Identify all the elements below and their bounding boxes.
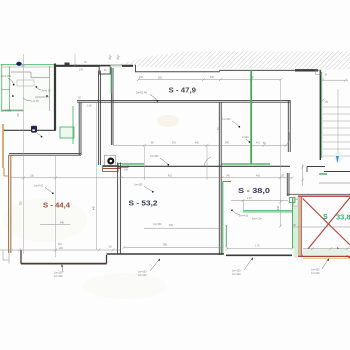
faint watermark blob c (83, 273, 167, 299)
shaft wall x112 (110, 68, 112, 145)
svg-text:1m=150: 1m=150 (54, 273, 63, 275)
panel leader (37, 133, 41, 136)
room below annex bottom wall (3, 129, 56, 131)
thick wall above stairs (295, 69, 318, 71)
faint watermark blob a (3, 198, 87, 242)
tick d (301, 166, 304, 169)
tan outer wall left (2, 124, 4, 168)
white box on strip (294, 200, 298, 207)
light green band (122, 163, 144, 165)
right wall dark (319, 70, 321, 160)
bottom outer wall left (20, 250, 22, 264)
dim line y178 (11, 177, 292, 179)
dim line y145 (113, 144, 288, 146)
bathtub symbol blue (16, 62, 21, 66)
svg-text:2.08: 2.08 (87, 106, 92, 108)
svg-text:1m=120: 1m=120 (311, 273, 320, 275)
extension line x23 (23, 54, 25, 254)
tick e (301, 179, 304, 182)
svg-text:L=1.50: L=1.50 (32, 101, 40, 103)
svg-text:2.00: 2.00 (247, 198, 252, 200)
red utility box (103, 166, 118, 172)
svg-text:1m=4.05: 1m=4.05 (239, 216, 249, 218)
top dim tick x74 (74, 64, 77, 67)
extension line x75 (74, 54, 76, 67)
wall step x136 (135, 65, 137, 72)
red room left gray line (297, 196, 299, 257)
dim line y228 (144, 227, 222, 229)
red room top dark line (287, 193, 350, 195)
top wall thin segment (135, 71, 220, 73)
green step segment (319, 173, 327, 175)
dim line across red room bottom (303, 248, 350, 250)
stair center line (337, 89, 339, 154)
red room left red wall (300, 197, 302, 256)
red diagonal 3 (337, 248, 350, 259)
divider wall S44/S53 (117, 163, 119, 255)
stair direction arrow blue (334, 152, 343, 163)
under-stair step wall b (306, 167, 308, 173)
green vertical x73 (72, 106, 74, 144)
annex partition v1 (30, 72, 32, 78)
extension line x55 (55, 155, 57, 257)
annex green border left (1, 64, 3, 112)
left brown wall pair (8, 155, 10, 253)
green line x251 (250, 70, 252, 164)
red room top red wall (298, 195, 350, 197)
extension line x280 (279, 80, 281, 227)
svg-text:5m=52.4%: 5m=52.4% (136, 93, 147, 95)
green tiny rect (118, 163, 128, 167)
svg-text:1m=120: 1m=120 (232, 274, 241, 276)
south rooms top wall (103, 165, 290, 167)
annex interior vertical (49, 66, 51, 111)
dim line y247 mid (124, 246, 222, 248)
dim line y200 S38 (231, 199, 288, 201)
annex green inner vertical (9, 66, 11, 112)
green box top (290, 198, 296, 203)
light green band right of recess (110, 65, 122, 67)
annex green bottom (2, 110, 24, 112)
tick right a (321, 79, 324, 82)
top thick wall (54, 65, 133, 67)
wall between annex and room x79 (78, 102, 80, 155)
tick mark box (316, 70, 322, 75)
red diagonal 2 (303, 199, 350, 246)
panel symbol (31, 126, 37, 133)
shaft wall x99 (98, 71, 100, 166)
svg-text:S: S (323, 212, 328, 221)
door arc S53 (204, 157, 211, 166)
svg-text:1m=150: 1m=150 (232, 271, 241, 273)
svg-text:1m=150: 1m=150 (222, 119, 231, 121)
svg-text:5m=1.20: 5m=1.20 (42, 91, 52, 93)
stair top dim line (322, 79, 348, 81)
dim line across red room (293, 226, 350, 228)
dim line y250 left (9, 249, 120, 251)
annex fixture box (17, 80, 34, 86)
light green strip left of red room (294, 197, 299, 258)
light green bottom band red room (303, 249, 350, 256)
svg-text:S - 44,4: S - 44,4 (43, 201, 70, 210)
svg-text:S - 38,0: S - 38,0 (238, 186, 270, 195)
arrow dot b (46, 95, 48, 97)
svg-text:S - 53,2: S - 53,2 (129, 199, 158, 208)
bottom wall S38 (226, 254, 292, 256)
corridor wall top pair (77, 99, 290, 101)
svg-text:33,8: 33,8 (336, 213, 350, 222)
extension line x95 (95, 103, 97, 250)
corridor interior line y110 (3, 109, 23, 111)
tick marks top x113 (109, 55, 111, 61)
svg-text:1m=150: 1m=150 (153, 224, 162, 226)
right wall green overlay (321, 72, 323, 158)
wall x288 lower segment (286, 173, 288, 196)
annex top thin gray line (2, 66, 55, 68)
wall notch (99, 66, 110, 74)
green overlay shaft (110, 67, 112, 93)
hatched existing wall band top (118, 52, 350, 70)
tick right b (344, 79, 347, 82)
svg-text:1m=120: 1m=120 (138, 275, 147, 277)
divider wall S53/S38 (218, 102, 220, 255)
interior dim line y79 (138, 79, 281, 81)
annex partition h2 (31, 77, 50, 79)
stair treads (323, 107, 350, 156)
green line left of red room (292, 197, 294, 248)
under-stair step wall c (324, 171, 350, 173)
svg-text:1m=150: 1m=150 (134, 185, 143, 187)
annex light green room top-left (2, 65, 56, 112)
arrow dot a (12, 95, 14, 97)
under-stair line (319, 182, 350, 184)
svg-text:S - 47,9: S - 47,9 (169, 86, 197, 95)
green L in S38 (223, 181, 231, 183)
faint watermark blob b (157, 115, 179, 127)
svg-text:L=120: L=120 (242, 137, 249, 139)
S-44,4 top wall pair (9, 152, 81, 154)
annex partition h3 (35, 96, 50, 98)
svg-text:1m=150: 1m=150 (311, 270, 320, 272)
red diagonal 1 (303, 198, 350, 256)
annex green border top (1, 64, 56, 66)
dim vertical x243 (242, 200, 244, 210)
red room left yellow line (299, 197, 301, 257)
green box left of wall (60, 127, 74, 138)
dim line y224 (40, 224, 70, 226)
red room bottom red wall (298, 255, 350, 257)
green double line S38 right (243, 211, 292, 212)
svg-text:1m=120: 1m=120 (54, 276, 63, 278)
wall right of corridor x288-290 (287, 100, 289, 152)
svg-text:1.70: 1.70 (255, 246, 260, 248)
green overlay S38 top (221, 163, 270, 165)
svg-text:Sm=1.05a: Sm=1.05a (1, 111, 12, 113)
svg-text:1m=150: 1m=150 (150, 156, 159, 158)
svg-text:1m=150: 1m=150 (138, 272, 147, 274)
bottom-left step detail (0, 250, 9, 264)
under-stair step wall a (307, 166, 325, 168)
annex partition h1 (11, 71, 31, 73)
annex partition h4 (2, 89, 11, 91)
extension line x207 (206, 146, 208, 180)
right vertical dim (302, 164, 304, 186)
small wall block (65, 63, 70, 67)
door arc right wall (285, 130, 290, 147)
brown wall jog (3, 168, 5, 176)
bottom wall middle (107, 253, 225, 255)
annex right thick wall (54, 64, 56, 131)
green vertical S38 bottom (225, 225, 227, 248)
tick right c (322, 99, 325, 102)
extension line x144 (143, 146, 145, 180)
red overlay left part (103, 168, 121, 170)
svg-text:1m=4.05: 1m=4.05 (34, 186, 44, 188)
red room bottom yellow line (303, 257, 350, 259)
green band line (122, 163, 144, 165)
svg-text:5m=1.2m: 5m=1.2m (252, 219, 262, 221)
svg-text:1m=4.05a: 1m=4.05a (1, 76, 12, 78)
column symbol (104, 155, 115, 165)
dim line y248 S38 (227, 248, 292, 250)
